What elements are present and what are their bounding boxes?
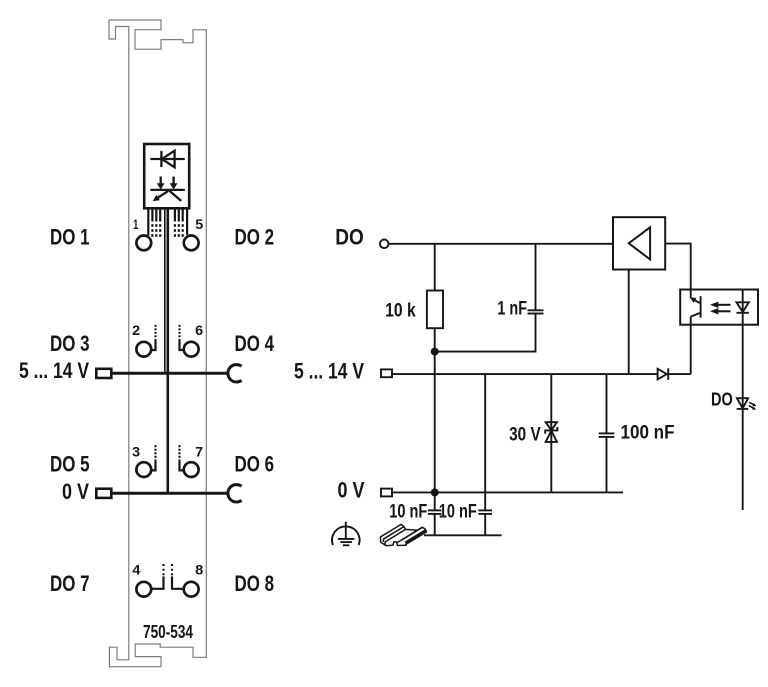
pin 6 dashed link [180, 325, 183, 350]
rail 0V [392, 491, 623, 493]
amplifier U1 [613, 217, 665, 269]
svg-text:0 V: 0 V [338, 477, 365, 502]
pin 8 dashed link [172, 564, 183, 589]
capacitor 10nF (B) [478, 374, 492, 535]
junction node B [431, 488, 439, 496]
svg-text:DO 1: DO 1 [50, 225, 90, 250]
pin 1 contact [136, 236, 151, 251]
optocoupler light arrows [718, 305, 731, 312]
LED emission arrows symbol in LED block [150, 177, 184, 201]
pin 3 dashed link [152, 445, 155, 470]
svg-text:5 ... 14 V: 5 ... 14 V [19, 358, 89, 383]
svg-text:DO 6: DO 6 [235, 451, 275, 476]
diode D1 on rail [658, 369, 667, 380]
functional earth symbol [332, 522, 360, 546]
svg-text:5: 5 [195, 216, 203, 232]
wire resistor to junction [434, 328, 436, 351]
svg-text:2: 2 [132, 322, 140, 338]
svg-text:8: 8 [195, 562, 203, 578]
LED emission arrows [749, 402, 755, 408]
pin 3 contact [136, 462, 151, 477]
wire amplifier ground tap [628, 270, 630, 375]
svg-text:10 k: 10 k [385, 300, 416, 321]
pin 8 contact [184, 582, 199, 597]
terminal square 5...14V (module) [96, 369, 111, 378]
phototransistor Q1 [691, 290, 701, 375]
terminal square 5...14V (schematic) [381, 369, 392, 377]
svg-text:DO: DO [335, 225, 364, 250]
pin 2 dashed link [152, 325, 155, 350]
LED block [144, 144, 189, 208]
pin 4 dashed link [152, 564, 163, 589]
svg-text:0 V: 0 V [62, 479, 89, 504]
svg-text:DO: DO [711, 389, 733, 410]
pin 6 contact [184, 342, 199, 357]
comb dotted segments [151, 224, 184, 237]
node DO open circle [380, 240, 389, 249]
svg-text:4: 4 [132, 562, 140, 578]
capacitor 100nF [599, 374, 615, 492]
svg-text:30 V: 30 V [509, 424, 541, 445]
module outline 750-534 [109, 20, 206, 667]
junction node A [431, 348, 439, 356]
svg-text:6: 6 [195, 322, 203, 338]
wire junction down to 0V rail [434, 352, 436, 493]
svg-text:DO 2: DO 2 [235, 225, 275, 250]
bus wire pair (thin+thick vertical) [165, 208, 168, 493]
svg-text:DO 7: DO 7 [50, 571, 90, 596]
wire DO to amplifier [389, 243, 614, 245]
power jumper contact (hook) 5...14V [228, 365, 242, 382]
rail 5...14V [392, 373, 658, 375]
wire amplifier output [665, 244, 691, 290]
wire tap to resistor [434, 244, 436, 291]
svg-text:750-534: 750-534 [143, 622, 193, 642]
capacitor 1nF [528, 244, 544, 314]
optocoupler LED [737, 290, 749, 399]
terminal square 0V (schematic) [381, 489, 392, 497]
terminal square 0V (module) [96, 489, 111, 498]
svg-text:1 nF: 1 nF [497, 299, 527, 320]
pin 7 contact [184, 462, 199, 477]
svg-text:5 ... 14 V: 5 ... 14 V [294, 359, 364, 384]
svg-text:DO 8: DO 8 [235, 571, 275, 596]
wire 5...14V (module) [111, 372, 228, 375]
pin 2 contact [136, 342, 151, 357]
LED DO indicator [737, 398, 749, 510]
svg-text:DO 5: DO 5 [50, 451, 90, 476]
svg-text:10 nF: 10 nF [439, 501, 477, 522]
DIN rail icon (functional earth) [380, 524, 426, 545]
power jumper contact (hook) 0V [228, 485, 242, 502]
capacitor 10nF (A) [428, 492, 442, 535]
svg-text:10 nF: 10 nF [389, 501, 427, 522]
earth wire [424, 534, 502, 536]
svg-text:100 nF: 100 nF [621, 422, 675, 443]
pin comb wires below LED block [148, 208, 187, 235]
pin 7 dashed link [180, 445, 183, 470]
wire junction to 1nF bottom [435, 314, 536, 352]
resistor 10k [427, 291, 443, 329]
svg-text:DO 3: DO 3 [50, 331, 90, 356]
diode symbol in LED block [150, 151, 184, 168]
pin 4 contact [136, 582, 151, 597]
svg-text:DO 4: DO 4 [235, 331, 275, 356]
wire 0V (module) [111, 492, 228, 495]
pin 5 contact [184, 236, 199, 251]
svg-text:3: 3 [132, 443, 140, 459]
svg-text:7: 7 [195, 443, 203, 459]
wire diode to optocoupler emitter [668, 373, 691, 375]
TVS diode 30V [545, 374, 557, 492]
optocoupler U2 box [680, 290, 758, 325]
svg-text:1: 1 [133, 216, 138, 232]
